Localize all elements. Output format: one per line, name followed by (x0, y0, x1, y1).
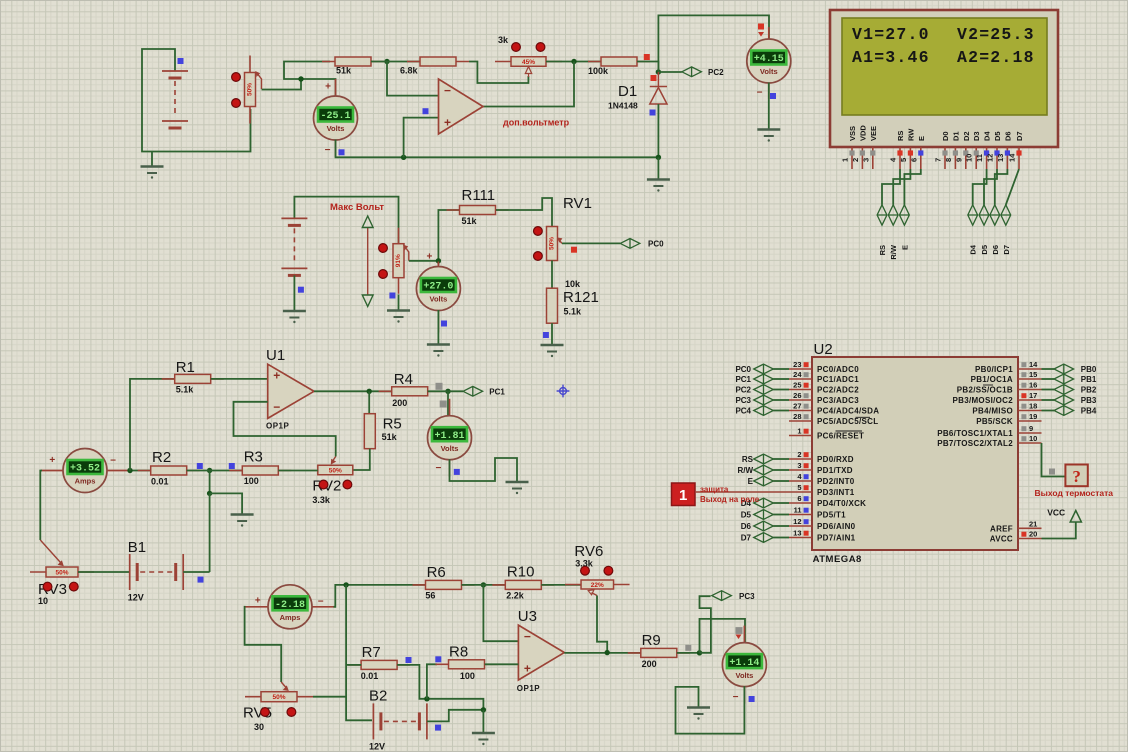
terminal E below LCD (900, 205, 910, 225)
U2 pin 18 PB4/MISO (972, 402, 1041, 416)
U2 pin 16 PB2/SS/OC1B (957, 381, 1042, 395)
svg-text:PD3/INT1: PD3/INT1 (817, 488, 855, 497)
svg-text:D4: D4 (983, 131, 992, 141)
wire ground stub D1 rail (657, 157, 659, 179)
wiper arrow preset 3k (525, 67, 531, 74)
U2 pin 20 AVCC (990, 530, 1042, 544)
wire node to terminal PC2 (658, 71, 681, 73)
wire LCD pin4 RS (882, 169, 900, 205)
svg-text:PB0/ICP1: PB0/ICP1 (975, 365, 1013, 374)
svg-text:PB0: PB0 (1081, 365, 1097, 374)
svg-text:VDD: VDD (858, 125, 867, 141)
resistor 100k (588, 57, 650, 66)
potentiometer 91% Макс Вольт (393, 228, 404, 294)
terminal E at U2 (754, 476, 774, 486)
svg-text:AVCC: AVCC (990, 535, 1013, 544)
wire measure node to R51k and voltmeter (284, 62, 336, 98)
terminal R/W at U2 (754, 465, 774, 475)
svg-text:RS: RS (878, 245, 887, 255)
wire R9 right to node (677, 652, 700, 654)
svg-text:−: − (524, 630, 531, 644)
wire inverting input drop (387, 62, 439, 96)
junction measure node (298, 76, 303, 81)
probe marker blue VM3 minus (441, 321, 447, 327)
U2 pin 14 PB0/ICP1 (975, 360, 1041, 374)
svg-text:25: 25 (793, 381, 801, 390)
svg-text:10k: 10k (565, 279, 581, 289)
svg-text:3k: 3k (498, 35, 509, 45)
svg-text:1: 1 (797, 427, 801, 436)
wiper arrow RV top-left (257, 74, 261, 89)
microcontroller U2 ATMEGA8 body (812, 357, 1018, 550)
resistor R8 (436, 660, 498, 669)
U2 pin 15 PB1/OC1A (971, 370, 1042, 384)
svg-text:5: 5 (899, 158, 908, 162)
wiper arrow RV6 (592, 593, 598, 596)
svg-text:PC5/ADC5/SCL: PC5/ADC5/SCL (817, 417, 878, 426)
junction R8 B2 node (424, 696, 429, 701)
svg-text:V2=25.3: V2=25.3 (957, 25, 1035, 44)
svg-text:VEE: VEE (869, 126, 878, 141)
voltmeter VM2 +4.15 Volts (747, 27, 791, 99)
svg-text:+4.15: +4.15 (754, 54, 784, 65)
wire LCD pin6 E (904, 169, 920, 205)
svg-text:-2.18: -2.18 (275, 600, 305, 611)
probe marker blue pot91 bottom (389, 293, 395, 299)
svg-text:51k: 51k (336, 66, 352, 76)
terminal D4 below LCD (968, 205, 978, 225)
svg-text:100: 100 (460, 671, 475, 681)
svg-text:−: − (435, 463, 441, 474)
svg-text:D6: D6 (991, 245, 1000, 255)
terminal PC0 at U2 (754, 364, 774, 374)
op-amp U3 (518, 625, 564, 680)
ground under BT2 (283, 311, 306, 323)
wire terminal D7 to U2 (773, 537, 789, 539)
svg-text:VSS: VSS (848, 126, 857, 141)
svg-text:PD7/AIN1: PD7/AIN1 (817, 534, 856, 543)
svg-text:11: 11 (794, 506, 802, 515)
wire R4 to PC1 (428, 390, 463, 392)
U2 pin 3 PD1/TXD (789, 461, 853, 475)
wire node down to ground branch (209, 471, 211, 494)
svg-text:R3: R3 (244, 449, 263, 466)
svg-text:Volts: Volts (736, 671, 754, 680)
wire U1 output to R4 (314, 390, 392, 392)
svg-text:+: + (444, 116, 451, 130)
svg-text:VCC: VCC (1047, 508, 1065, 518)
wire node zigzag to PC3 (700, 596, 711, 653)
probe marker gray R4 right a (436, 383, 443, 390)
wire node down to U3 minus (483, 585, 518, 641)
svg-text:R6: R6 (427, 564, 446, 581)
svg-text:Volts: Volts (327, 124, 345, 133)
resistor R3 (229, 466, 291, 475)
probe marker red 100k right (644, 54, 650, 60)
wire R111 to RV1 (496, 198, 552, 228)
svg-text:защита: защита (700, 485, 729, 494)
svg-text:5.1k: 5.1k (176, 385, 195, 395)
svg-text:12V: 12V (369, 742, 385, 752)
U2 pin 10 PB7/TOSC2/XTAL2 (937, 434, 1041, 448)
probe marker blue R2 right (197, 463, 203, 469)
terminal RS below LCD (877, 205, 887, 225)
red button preset 3k right (536, 43, 545, 52)
svg-text:PB2: PB2 (1081, 386, 1097, 395)
op-amp U4 aux voltmeter buffer (439, 79, 484, 134)
svg-text:E: E (748, 477, 754, 486)
probe marker gray thermostat wire (1049, 469, 1055, 475)
svg-text:PC6/RESET: PC6/RESET (817, 432, 864, 441)
wire terminal E to U2 (773, 480, 789, 482)
svg-text:23: 23 (793, 360, 801, 369)
probe marker red PC0 wire (571, 247, 577, 253)
svg-text:9: 9 (1029, 424, 1033, 433)
svg-text:16: 16 (1029, 381, 1037, 390)
wire R5 bottom to RV2 right (353, 449, 370, 470)
svg-text:PD1/TXD: PD1/TXD (817, 466, 853, 475)
terminal D4 at U2 (754, 498, 774, 508)
terminal D6 below LCD (990, 205, 1000, 225)
svg-text:PC4: PC4 (735, 407, 751, 416)
svg-text:14: 14 (1029, 360, 1038, 369)
wire R5 top stub (368, 391, 370, 414)
svg-text:Volts: Volts (441, 444, 459, 453)
U2 pin 13 PD7/AIN1 (789, 529, 856, 543)
svg-text:PC0: PC0 (735, 365, 751, 374)
svg-text:13: 13 (793, 529, 801, 538)
svg-text:A2=2.18: A2=2.18 (957, 48, 1035, 67)
arrow marker red VM5 top (736, 635, 742, 640)
power symbol VCC (1070, 511, 1081, 523)
svg-text:PC3: PC3 (739, 592, 755, 601)
overline RESET U2 (836, 430, 863, 432)
terminal PC0 (620, 239, 640, 249)
probe marker red VM2 wire (758, 24, 764, 30)
probe marker blue R121 bottom (543, 332, 549, 338)
svg-text:13: 13 (996, 154, 1005, 162)
terminal PC2 at U2 (754, 385, 774, 395)
svg-text:D6: D6 (1003, 131, 1012, 141)
wire B1 to node rail (183, 571, 209, 573)
overline SCL U2 (856, 416, 871, 418)
svg-text:PB1/OC1A: PB1/OC1A (971, 375, 1013, 384)
svg-text:Amps: Amps (75, 477, 96, 486)
svg-text:+3.52: +3.52 (70, 464, 100, 475)
junction rail B2 branch (343, 582, 348, 587)
LCD display module LCD1 body (830, 10, 1058, 147)
probe marker gray R4 right b (440, 401, 447, 408)
svg-text:PD5/T1: PD5/T1 (817, 511, 846, 520)
U2 pin 23 PC0/ADC0 (789, 360, 859, 374)
ground under VM4 (506, 482, 529, 494)
svg-text:PD0/RXD: PD0/RXD (817, 455, 854, 464)
svg-text:5: 5 (797, 483, 801, 492)
terminal PB4 at U2 (1054, 406, 1074, 416)
svg-text:100k: 100k (588, 66, 609, 76)
svg-text:+1.81: +1.81 (434, 431, 464, 442)
wire terminal D4 to U2 (773, 502, 789, 504)
U2 pin 2 PD0/RXD (789, 450, 854, 464)
terminal PC4 at U2 (754, 406, 774, 416)
junction R2 R3 node (207, 468, 212, 473)
potentiometer RV1 50% (547, 227, 558, 261)
ground under D1 rail (647, 180, 670, 192)
wire node to VM4 +1.81 (447, 391, 449, 416)
terminal D6 at U2 (754, 521, 774, 531)
LCD pin 2 VDD (851, 125, 868, 169)
svg-text:AREF: AREF (990, 524, 1013, 533)
measurement arrow Макс Вольт (362, 216, 373, 307)
preset 3k 45% (495, 57, 562, 67)
wire R7 left to branch (346, 664, 361, 666)
svg-text:PB7/TOSC2/XTAL2: PB7/TOSC2/XTAL2 (937, 439, 1013, 448)
svg-text:11: 11 (975, 154, 984, 162)
wire RV1 to R121 (551, 261, 553, 290)
svg-text:12: 12 (986, 154, 995, 162)
resistor 51k top-left (322, 57, 384, 66)
svg-text:+: + (255, 596, 261, 607)
terminal PC3 at U2 (754, 395, 774, 405)
wire R1 to U1 plus input (211, 378, 268, 380)
voltmeter VM4 +1.81 Volts (428, 399, 472, 477)
terminal D5 at U2 (754, 510, 774, 520)
svg-text:PB2/SS/OC1B: PB2/SS/OC1B (957, 386, 1013, 395)
svg-text:PC0/ADC0: PC0/ADC0 (817, 365, 859, 374)
svg-text:доп.вольтметр: доп.вольтметр (503, 118, 570, 128)
svg-text:9: 9 (954, 158, 963, 162)
svg-text:-25.1: -25.1 (320, 111, 350, 122)
wire terminal PC4 to U2 (773, 410, 789, 412)
resistor R111 (447, 206, 509, 215)
svg-text:R1: R1 (176, 359, 195, 376)
U2 pin 17 PB3/MOSI/OC2 (952, 391, 1041, 405)
terminal PC2 (682, 67, 702, 77)
svg-text:8: 8 (944, 158, 953, 162)
probe marker blue BT1 top (178, 58, 184, 64)
red button RV2 right (343, 480, 352, 489)
ammeter AM1 +3.52 Amps (41, 449, 129, 493)
voltmeter VM3 +27.0 Volts (416, 262, 460, 333)
wire RV1 wiper to terminal PC0 (562, 242, 620, 244)
svg-text:6: 6 (797, 494, 801, 503)
svg-text:+: + (426, 252, 432, 263)
svg-text:D1: D1 (951, 131, 960, 141)
svg-text:D4: D4 (969, 244, 978, 254)
U2 pin 5 PD3/INT1 (789, 483, 855, 497)
svg-text:22%: 22% (591, 582, 604, 589)
svg-text:51k: 51k (462, 216, 478, 226)
probe marker blue B1 right (198, 577, 204, 583)
junction AM1 R1 node (127, 468, 132, 473)
wire node to VM5 +1.14 (700, 619, 746, 653)
wire VM2 to ground (768, 83, 770, 130)
svg-text:50%: 50% (549, 237, 556, 250)
wire BT2 bottom to ground (293, 275, 295, 310)
svg-text:+: + (325, 82, 331, 93)
ground under R121 (541, 345, 564, 357)
ground under R2 R3 node (231, 515, 254, 527)
svg-text:3: 3 (797, 461, 801, 470)
LCD pin 13 D6 (996, 131, 1013, 169)
probe marker blue B2 right (435, 725, 441, 731)
svg-text:Выход на реле: Выход на реле (700, 495, 760, 504)
svg-text:+: + (49, 455, 55, 466)
red button RV5 right (287, 708, 296, 717)
svg-text:R8: R8 (449, 644, 468, 661)
wire battery BT1 loop to RV pot (142, 49, 251, 152)
probe marker blue D1 cathode (650, 110, 656, 116)
svg-text:3: 3 (861, 158, 870, 162)
junction R4 right PC1 node (445, 389, 450, 394)
svg-text:28: 28 (793, 412, 801, 421)
svg-text:PD2/INT0: PD2/INT0 (817, 477, 855, 486)
junction ground branch (207, 491, 212, 496)
resistor R7 (348, 660, 410, 669)
ground under BT1 loop (141, 167, 164, 179)
probe marker blue R3 left (229, 463, 235, 469)
svg-text:RS: RS (742, 455, 754, 464)
probe marker blue R8 left (435, 656, 441, 662)
wire marker 1 to U2 pin 5 (695, 491, 789, 493)
U2 pin 19 PB5/SCK (976, 412, 1041, 426)
svg-text:PC1: PC1 (489, 388, 505, 397)
wire AM1 left down to RV3 wiper (40, 471, 42, 541)
ammeter AM2 -2.18 Amps (245, 585, 334, 629)
svg-text:D5: D5 (741, 511, 752, 520)
probe marker blue VM5 minus (749, 696, 755, 702)
wire terminal PC0 to U2 (773, 368, 789, 370)
red button RV1 down (534, 252, 543, 261)
svg-text:+27.0: +27.0 (423, 282, 453, 293)
svg-text:50%: 50% (55, 569, 68, 576)
svg-text:PB4/MISO: PB4/MISO (972, 407, 1013, 416)
svg-text:+1.14: +1.14 (729, 658, 759, 669)
red button RV1 up (534, 227, 543, 236)
wire node up to R1 (130, 379, 175, 471)
junction U3 output RV6 (605, 650, 610, 655)
terminal R/W below LCD (888, 205, 898, 225)
svg-text:Volts: Volts (760, 67, 778, 76)
LCD pin 1 VSS (841, 126, 858, 169)
wire VM5 to ground (676, 686, 745, 734)
svg-text:PC1: PC1 (735, 375, 751, 384)
svg-text:3.3k: 3.3k (312, 495, 331, 505)
ground under VM2 (757, 130, 780, 142)
svg-text:D3: D3 (972, 131, 981, 141)
red button RV2 left (319, 480, 328, 489)
svg-text:D7: D7 (1002, 245, 1011, 255)
svg-text:PC2: PC2 (735, 386, 751, 395)
wire 6.8k to preset 3k wiper (469, 62, 528, 84)
battery B1 12V (130, 554, 184, 590)
wire preset 3k to 100k node (546, 61, 601, 63)
junction feedback node (571, 59, 576, 64)
junction common rail at op-amp branch (401, 155, 406, 160)
probe marker blue op-amp U4 plus input (423, 108, 429, 114)
wire U2 pin10 to thermostat output (1042, 443, 1066, 477)
terminal PB0 at U2 (1054, 364, 1074, 374)
wire terminal RS to U2 (773, 458, 789, 460)
svg-text:18: 18 (1029, 402, 1037, 411)
svg-text:V1=27.0: V1=27.0 (852, 25, 930, 44)
wiper arrow RV2 (333, 457, 336, 461)
wire VM3 bottom to ground (437, 310, 439, 344)
wire LCD pin5 RW (893, 169, 910, 205)
svg-text:1: 1 (679, 487, 687, 504)
red button preset 3k left (512, 43, 521, 52)
svg-text:1N4148: 1N4148 (608, 101, 638, 111)
terminal D5 below LCD (979, 205, 989, 225)
voltmeter VM1 -25.1 Volts (314, 79, 358, 157)
svg-text:−: − (273, 400, 280, 414)
wire terminal PC3 to U2 (773, 399, 789, 401)
svg-text:0.01: 0.01 (361, 671, 379, 681)
svg-text:2: 2 (851, 158, 860, 162)
LCD pin 6 E (909, 136, 926, 169)
wiper arrow RV5 (281, 682, 286, 688)
svg-text:D7: D7 (741, 534, 752, 543)
svg-text:10: 10 (1029, 434, 1037, 443)
junction U1 output R5 (367, 389, 372, 394)
svg-text:R10: R10 (507, 564, 535, 581)
svg-text:7: 7 (934, 158, 943, 162)
wire U1 minus feedback to RV2 wiper (234, 402, 336, 457)
wire U2 to terminal PB1 (1042, 378, 1055, 380)
svg-text:RW: RW (906, 128, 915, 141)
svg-text:2.2k: 2.2k (506, 591, 525, 601)
junction VM3 node (436, 258, 441, 263)
red button RV6 right (604, 566, 613, 575)
terminal RS at U2 (754, 454, 774, 464)
svg-text:D7: D7 (1015, 131, 1024, 141)
svg-text:U1: U1 (266, 347, 285, 364)
probe marker gray VM5 top (736, 627, 743, 634)
resistor 6.8k (407, 57, 469, 66)
resistor R10 (492, 580, 554, 589)
terminal PB3 at U2 (1054, 395, 1074, 405)
wire R3 to RV2 (278, 470, 318, 472)
svg-text:50%: 50% (247, 83, 254, 96)
wire U3 output to R9 (564, 652, 641, 654)
svg-text:6: 6 (909, 158, 918, 162)
wire U2 to terminal PB2 (1042, 389, 1055, 391)
wire RV5 right to branch (313, 696, 346, 698)
U2 pin 11 PD5/T1 (789, 506, 846, 520)
overline SS U2 (983, 384, 993, 386)
wire RV3 to B1 (78, 571, 130, 573)
wire U2 AVCC to VCC (1042, 522, 1076, 539)
wire terminal PC2 to U2 (773, 389, 789, 391)
marker 1 Выход на реле (672, 483, 696, 506)
svg-text:RS: RS (896, 131, 905, 141)
svg-text:100: 100 (244, 476, 259, 486)
LCD pin 12 D5 (986, 131, 1003, 169)
wire B2 right to ground node (427, 710, 484, 722)
potentiometer RV5 30 (245, 692, 313, 702)
junction R6 right node (481, 582, 486, 587)
ground under VM3 (427, 345, 450, 357)
svg-text:24: 24 (793, 370, 802, 379)
svg-text:Выход термостата: Выход термостата (1035, 488, 1114, 498)
svg-text:5.1k: 5.1k (564, 307, 583, 317)
svg-text:50%: 50% (329, 467, 342, 474)
potentiometer RV3 10 (30, 567, 94, 577)
U2 pin 1 PC6/RESET (789, 427, 864, 441)
svg-text:−: − (110, 456, 116, 467)
wire U2 to terminal PB3 (1042, 399, 1055, 401)
terminal PC1 at U2 (754, 374, 774, 384)
